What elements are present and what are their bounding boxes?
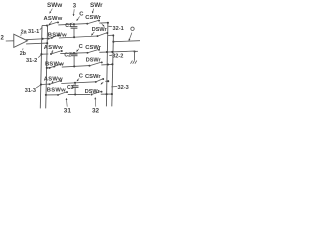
switch DSWr row2 (89, 61, 103, 66)
ground symbol (131, 61, 137, 64)
arrow ASWw row2 (52, 50, 54, 53)
wire ground lead (133, 51, 135, 60)
svg-text:2: 2 (1, 36, 5, 42)
wire row1 top (ASWw to CSWr) (58, 24, 87, 25)
wire 2a / row1 bottom (amp to BSWw) (26, 39, 49, 40)
switch ASWw row2 (50, 50, 63, 55)
capacitor C2 (71, 53, 78, 66)
svg-text:DSWr: DSWr (86, 58, 102, 64)
arrow output leader (129, 33, 132, 41)
leader 2b (22, 48, 25, 50)
switch BSWw row2 (49, 64, 62, 69)
switch DSWr row3 (91, 91, 103, 96)
label ASWw row3 (44, 77, 63, 83)
svg-text:C3: C3 (67, 85, 74, 91)
wire row3 bottom (BSWw to DSWr) (68, 93, 90, 95)
node row3 bottom bus b (111, 93, 113, 95)
svg-text:3: 3 (73, 4, 77, 10)
svg-text:32: 32 (92, 107, 100, 114)
switch CSWr row3 (95, 78, 104, 83)
wire input (6, 40, 14, 42)
label BSWw row3 (47, 88, 66, 94)
svg-text:32-3: 32-3 (118, 85, 129, 91)
svg-text:32-1: 32-1 (113, 26, 124, 32)
svg-text:CSWr: CSWr (85, 15, 101, 21)
node C1 top (73, 23, 75, 25)
svg-text:31-3: 31-3 (25, 88, 36, 94)
switch BSWw row3 (57, 91, 68, 96)
svg-text:C2: C2 (64, 53, 71, 59)
node C2 bottom (73, 65, 75, 67)
wire row3 top (bus to ASWw) (41, 83, 50, 85)
switch BSWw row1 (48, 35, 60, 40)
label ASWw row1 (44, 16, 63, 22)
svg-text:SWw: SWw (47, 2, 62, 9)
svg-text:2a: 2a (21, 29, 28, 35)
capacitor C1 (71, 24, 78, 37)
node row3 top bus (40, 83, 42, 85)
arrow C row3 (77, 78, 79, 81)
wire ground stub tail (135, 50, 138, 52)
switch CSWr row2 (87, 49, 100, 54)
left write bus 31 line b (46, 25, 48, 108)
wire row1 bottom (BSWw to DSWr) (59, 36, 98, 38)
arrow 32 (94, 97, 96, 106)
node row3 bottom bus (45, 94, 47, 96)
svg-text:CSWr: CSWr (85, 45, 101, 51)
svg-text:C1: C1 (65, 23, 72, 29)
wire 2b (amp to bus) (26, 42, 47, 45)
arrow ASWw row1 (49, 21, 52, 25)
switch DSWr row1 (97, 32, 109, 37)
arrow DSWr row1 (91, 32, 94, 35)
arrow BSWw row2 (53, 66, 55, 68)
input terminal 2 label (1, 36, 5, 42)
svg-text:32-2: 32-2 (112, 54, 123, 60)
label BSWw row1 (48, 32, 67, 38)
svg-text:2b: 2b (20, 51, 27, 57)
node C3 top (74, 82, 76, 84)
leader 32-2 (109, 54, 112, 56)
leader C2 (70, 52, 72, 53)
leader 31-3 (36, 85, 40, 88)
svg-text:C: C (79, 12, 84, 18)
node row3 top bus right (107, 80, 109, 82)
left write bus 31 line a (40, 26, 42, 109)
node row2 bottom bus (46, 67, 48, 69)
leader 2a (20, 34, 22, 36)
label C row3 (79, 74, 84, 80)
arrow 3 (73, 9, 75, 16)
node row1 top right bus (107, 22, 109, 24)
node 2b bus (46, 42, 48, 44)
output terminal O (131, 27, 134, 30)
capacitor C3 (72, 83, 79, 95)
svg-text:C: C (79, 74, 84, 80)
arrow CSWr row1 (102, 24, 105, 27)
wire row2 bottom (BSWw to DSWr) (62, 66, 90, 68)
node 2a write bus (42, 38, 44, 40)
wire row1 top (CSWr to bus) (99, 22, 108, 24)
label 31-2 (26, 58, 37, 64)
wire row3 bottom (bus to BSWw) (46, 94, 57, 96)
label 31 (64, 107, 72, 114)
arrow SWr (92, 9, 94, 14)
node row2 bottom bus b (111, 63, 113, 65)
leader 32-1 (108, 25, 112, 27)
svg-text:ASWw: ASWw (44, 77, 63, 83)
svg-text:31-1: 31-1 (28, 29, 39, 35)
node row2 bottom bus a (107, 63, 109, 65)
node ground line bus b (111, 51, 113, 53)
switch ASWw row1 (46, 21, 59, 26)
leader 31-2 (38, 55, 41, 58)
label DSWr row3 (85, 89, 101, 95)
label C3 (67, 85, 74, 91)
node C3 bottom (74, 93, 76, 95)
wire row3 top (ASWw to CSWr) (61, 82, 96, 84)
svg-text:CSWr: CSWr (85, 74, 101, 80)
node ground line bus a (106, 51, 108, 53)
svg-text:31: 31 (64, 107, 72, 114)
label CSWr row3 (85, 74, 101, 80)
wire row2 bottom (DSWr to bus) (101, 63, 112, 66)
node C1 bottom (73, 36, 75, 38)
label 32-1 (113, 26, 124, 32)
arrow C row2 (76, 49, 79, 52)
arrow SWw (50, 9, 53, 14)
node output line bus (112, 41, 114, 43)
svg-text:ASWw: ASWw (44, 45, 63, 51)
label 31-3 (25, 88, 36, 94)
label DSWr row2 (86, 58, 102, 64)
wire row2 top (ASWw to CSWr) (60, 52, 87, 55)
switch ASWw row3 (49, 80, 62, 85)
node row3 bottom bus a (106, 93, 108, 95)
label 2a (21, 29, 28, 35)
leader 32-3 (111, 86, 117, 88)
label C row2 (79, 44, 84, 50)
arrow ASWw row3 (52, 81, 54, 83)
wire output line (113, 41, 140, 42)
svg-text:DSWr: DSWr (85, 89, 101, 95)
label CSWr row1 (85, 15, 101, 21)
label 31-1 (28, 29, 39, 35)
wire row2 top / ground line (99, 51, 134, 52)
arrow BSWw row1 (51, 37, 54, 39)
svg-text:31-2: 31-2 (26, 58, 37, 64)
wire row3 top (CSWr to bus) (105, 80, 108, 82)
right read bus 32 line a (106, 23, 108, 107)
label 2b (20, 51, 27, 57)
label SWr (90, 2, 103, 9)
label CSWr row2 (85, 45, 101, 51)
node ground stub (134, 50, 136, 52)
label 3 (73, 4, 77, 10)
label ASWw row2 (44, 45, 63, 51)
leader 31-1 (40, 27, 42, 29)
svg-text:C: C (79, 44, 84, 50)
arrow 31 (66, 98, 68, 106)
wire row2 top (bus to ASWw) (41, 53, 48, 55)
svg-text:SWr: SWr (90, 2, 103, 9)
node C2 top (73, 52, 75, 54)
svg-text:BSWw: BSWw (48, 32, 67, 38)
arrow C row1 (77, 16, 80, 20)
label DSWr row1 (92, 27, 108, 33)
label 32 (92, 107, 100, 114)
leader C3 (73, 85, 75, 86)
leader C1 (71, 23, 73, 24)
label 32-2 (112, 54, 123, 60)
label BSWw row2 (45, 62, 64, 68)
switch CSWr row1 (86, 20, 100, 25)
node row2 top bus (40, 53, 42, 55)
wire row1 top (bus to ASWw) (42, 24, 47, 26)
label SWw (47, 2, 62, 9)
right read bus 32 line b (112, 34, 114, 106)
label C row1 (79, 12, 84, 18)
label 32-3 (118, 85, 129, 91)
svg-text:ASWw: ASWw (44, 16, 63, 22)
op-amp 2 (buffer triangle) (14, 34, 28, 47)
svg-text:BSWw: BSWw (47, 88, 66, 94)
wire row1 bottom to bus corner (108, 35, 115, 37)
wire row3 bottom (DSWr to bus) (101, 93, 112, 95)
label C1 (65, 23, 72, 29)
label C2 (64, 53, 71, 59)
wire row2 bottom (bus to BSWw) (47, 67, 51, 69)
arrow CSWr row3 (101, 82, 104, 84)
